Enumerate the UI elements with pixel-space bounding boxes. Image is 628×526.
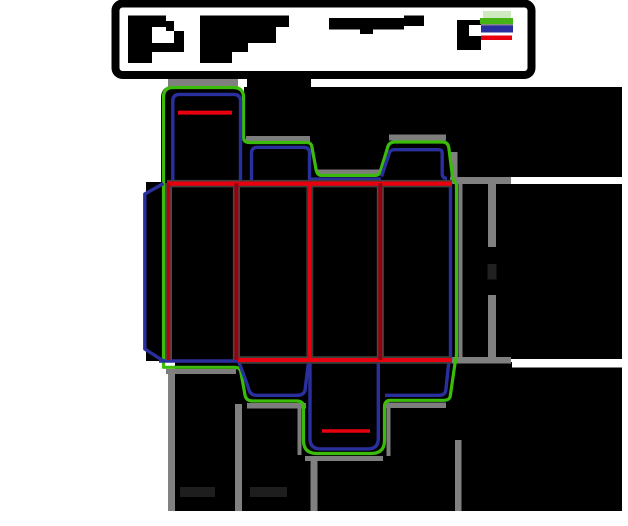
dieline silhouette: top flap 2: [244, 141, 318, 183]
dieline silhouette: top flap 3: [380, 141, 454, 184]
gray matte above top flap 3: [389, 135, 446, 141]
cut line: outer green contour: [164, 88, 457, 454]
dimension bar right bottom: [450, 357, 511, 364]
crease line: lid red: [178, 111, 232, 115]
dimension text dash left (dark): [180, 487, 215, 497]
logo red bar: [481, 36, 512, 41]
crease line: top flap 3 inner blue: [382, 150, 448, 179]
logo gray bar: [481, 24, 513, 26]
dieline silhouette: body panels: [146, 182, 458, 361]
crease line: panel divider 2 red: [308, 183, 311, 360]
dimension band above lid: [168, 78, 238, 87]
dimension text 165 (vertical, dark): [488, 264, 497, 280]
logo blue bar: [481, 26, 513, 33]
gray matte right of body cut edge: [459, 184, 463, 359]
title text blob 3: [329, 16, 424, 35]
cut line: bottom-left panel edge blue: [159, 359, 238, 363]
logo green bar: [480, 18, 513, 24]
dimension text dash mid (dark): [250, 487, 287, 497]
crease line: panel divider 1 dark red: [234, 183, 238, 360]
title text blob 1: [128, 16, 166, 28]
cut line: mid strip blue: [311, 177, 381, 181]
black field top-right (above flaps, right of lid): [247, 71, 311, 91]
gray matte below bottom-left cut: [166, 369, 236, 374]
gray matte right of tail: [387, 405, 391, 456]
gray matte under main creases: [167, 184, 452, 360]
dieline silhouette: bottom flap right: [384, 360, 452, 399]
gray matte below bottom flap right: [386, 403, 446, 409]
gray matte above top flap 2: [246, 136, 310, 142]
title text blob 4: [457, 20, 481, 50]
dimension extension line bottom x455: [455, 440, 462, 511]
dimension vertical line right lower segment: [488, 295, 496, 357]
crease line: body right inner blue: [449, 183, 452, 360]
black field top band right: [311, 87, 622, 177]
dieline silhouette: bottom tail: [303, 360, 384, 454]
crease line: left vertical red: [167, 183, 170, 360]
dimension bar right top: [450, 177, 511, 184]
gray matte left of tail: [298, 405, 302, 455]
crease line: lid inner blue: [173, 94, 241, 182]
gray matte under vertical creases: [169, 183, 381, 360]
cut line: bottom tail blue: [310, 362, 378, 449]
crease line: top flap 2 inner blue: [252, 147, 310, 182]
cut line: left glue flap blue outline: [145, 184, 164, 362]
gray matte below tail bottom: [305, 456, 383, 461]
dimension extension line bottom x235: [235, 404, 242, 511]
dieline silhouette: bottom flap left: [238, 360, 309, 399]
gray matte below bottom flap left: [247, 403, 306, 409]
gray matte above mid strip: [316, 170, 380, 175]
title box: [116, 4, 532, 76]
crease line: main top red: [167, 182, 452, 186]
dimension vertical line right upper segment: [488, 184, 496, 247]
black field bottom band: [175, 362, 512, 511]
title text blob 2: [200, 16, 289, 64]
dieline silhouette: left glue flap: [145, 183, 164, 361]
dieline silhouette: top mid strip: [317, 172, 381, 183]
cut line: bottom flap left blue: [239, 362, 309, 395]
dimension extension line right top: [451, 152, 458, 178]
crease line: panel divider 3 dark red: [378, 183, 382, 360]
black field right of body: [458, 184, 622, 359]
logo pale smear: [483, 11, 511, 18]
dieline silhouette: lid flap: [161, 86, 244, 183]
cut line: bottom flap right blue: [385, 362, 449, 395]
dimension extension line bottom x310: [311, 456, 318, 511]
dimension extension line bottom x168: [168, 370, 175, 511]
crease line: main bottom red: [238, 358, 452, 362]
crease line: tail red: [322, 429, 370, 433]
